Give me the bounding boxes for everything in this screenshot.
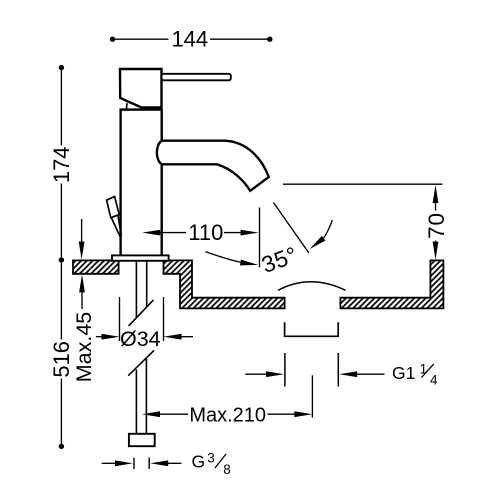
dim Max.45 upper arrow <box>79 219 85 260</box>
svg-text:4: 4 <box>430 373 438 388</box>
svg-text:516: 516 <box>49 341 74 378</box>
supply hose upper <box>136 261 146 317</box>
pop-up rod <box>112 218 121 238</box>
drain bracket <box>285 322 339 336</box>
deck right stepped block <box>164 260 285 308</box>
dim 70 upper arrow <box>433 185 439 211</box>
svg-text:Max.45: Max.45 <box>72 312 96 383</box>
dim 516 end dot <box>59 444 64 449</box>
dim 144 line <box>113 38 270 40</box>
dim 174 end dots <box>59 65 64 70</box>
hose nut G3/8 <box>129 434 155 446</box>
dim Max.45 lower arrow <box>79 274 85 309</box>
supply hose lower <box>136 359 146 434</box>
svg-text:Max.210: Max.210 <box>189 404 266 426</box>
deck far-right slab and basin wall <box>340 260 443 308</box>
break slash upper <box>129 300 154 326</box>
dim G3/8 label <box>192 451 231 477</box>
dim G1 1/4 label <box>392 361 438 387</box>
dim 144 end dots <box>110 37 115 42</box>
faucet body <box>121 110 162 256</box>
dim G3/8 arrows <box>102 460 182 466</box>
svg-text:144: 144 <box>171 26 208 51</box>
dim 70 lower arrow <box>433 241 439 260</box>
drain centerline extension <box>311 375 313 417</box>
head tick <box>125 103 128 110</box>
svg-text:8: 8 <box>223 462 231 477</box>
dim O34 extension lines <box>120 297 164 341</box>
dim 516 line <box>60 260 62 447</box>
outlet extension line <box>259 208 261 268</box>
dim G1 1/4 ticks <box>285 353 338 387</box>
outlet reference line <box>283 183 443 185</box>
break slash lower <box>128 350 154 375</box>
spout <box>157 141 269 191</box>
lever <box>162 74 231 81</box>
35deg curved arrow to line <box>309 220 332 249</box>
bowl dome arc <box>278 282 346 291</box>
dim G1 1/4 arrows <box>245 371 384 377</box>
35deg stream line <box>273 203 309 254</box>
svg-text:G: G <box>192 452 206 472</box>
svg-text:70: 70 <box>424 212 449 239</box>
svg-text:G1: G1 <box>392 363 415 383</box>
dim Max.210 left arrow <box>142 411 188 417</box>
faucet head <box>120 69 162 107</box>
svg-text:174: 174 <box>49 146 74 183</box>
dim 174 line <box>60 68 62 260</box>
dim Max.210 right arrow <box>268 411 313 417</box>
35deg left arc with arrow <box>206 252 259 266</box>
svg-text:Ø34: Ø34 <box>120 327 161 351</box>
dim O34 arrows <box>96 334 193 340</box>
dim 110 <box>142 220 258 245</box>
svg-text:3: 3 <box>207 451 215 466</box>
svg-text:110: 110 <box>188 220 223 245</box>
svg-text:1: 1 <box>420 361 428 376</box>
deck left block <box>73 260 119 273</box>
base flange <box>112 255 169 260</box>
dim G3/8 ticks <box>134 458 149 469</box>
pop-up knob <box>107 197 120 218</box>
